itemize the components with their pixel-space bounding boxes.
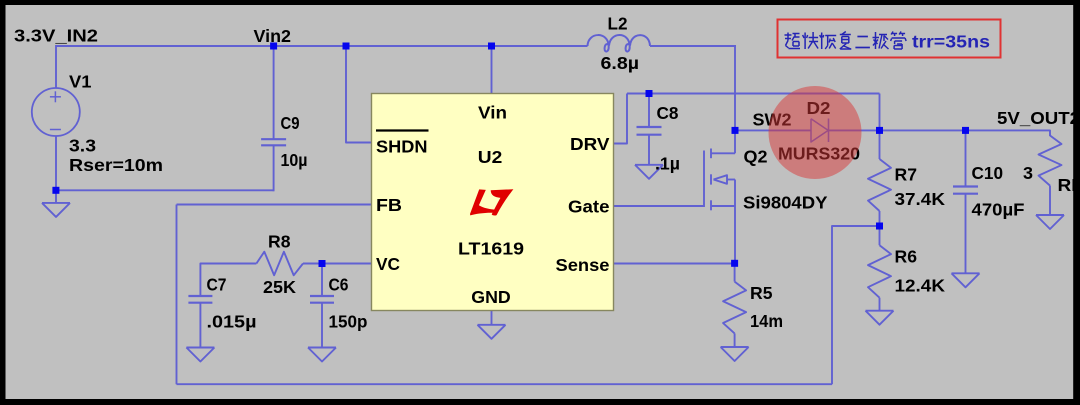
wire Vin pin drop (491, 46, 493, 94)
net label 5V_OUT2 (997, 108, 1080, 128)
svg-text:C9: C9 (281, 113, 300, 133)
value 150p (329, 312, 368, 332)
svg-text:LT1619: LT1619 (458, 239, 524, 259)
wire V1 bottom lead (55, 137, 57, 204)
mosfet Q2 (704, 130, 735, 263)
wire Sense pin (614, 263, 735, 265)
wire C10 bottom lead (965, 194, 967, 274)
diode D2 (811, 119, 829, 143)
annotation chinese text strokes (785, 32, 907, 50)
capacitor C7 (188, 296, 212, 303)
resistor R8 (256, 252, 303, 276)
label C10 (972, 163, 1004, 183)
value 3 (RL) (1023, 163, 1033, 183)
label R5 (750, 283, 773, 303)
svg-text:37.4K: 37.4K (895, 189, 946, 209)
label R8 (268, 232, 291, 252)
capacitor C10 (953, 187, 978, 194)
wire C9 bottom lead (273, 145, 275, 191)
wire Vin2 top rail left (56, 45, 588, 47)
capacitor C8 (637, 127, 662, 135)
value 14m (750, 311, 783, 331)
wire R6 top lead (879, 226, 881, 245)
ground C7 (186, 348, 214, 362)
ground R5 (721, 347, 749, 361)
svg-text:Sense: Sense (556, 255, 610, 275)
svg-text:C8: C8 (657, 103, 679, 123)
wire GND pin lead (491, 311, 493, 326)
capacitor C6 (310, 296, 334, 303)
capacitor C9 (261, 139, 286, 145)
svg-text:C10: C10 (972, 163, 1004, 183)
value 25K (263, 277, 296, 297)
label LT1619 (458, 239, 524, 259)
svg-text:Rser=10m: Rser=10m (69, 155, 163, 175)
svg-text:FB: FB (376, 195, 402, 215)
svg-text:R5: R5 (750, 283, 773, 303)
wire C6 bottom lead (321, 303, 323, 348)
wire rail down to output node (879, 94, 881, 131)
wire feedback tap (832, 226, 880, 384)
wire feedback bottom run (177, 383, 833, 385)
wire SW2 to D2 anode (735, 129, 812, 131)
resistor RL load (1039, 136, 1062, 186)
value 12.4K (895, 276, 946, 296)
value 6.8u (601, 53, 640, 73)
svg-text:3.3: 3.3 (69, 136, 96, 156)
svg-text:3.3V_IN2: 3.3V_IN2 (14, 26, 98, 46)
wire V1 top lead (55, 45, 57, 88)
wire C9 top lead (273, 46, 275, 139)
svg-text:trr=35ns: trr=35ns (912, 32, 990, 52)
ground R6 (866, 311, 894, 325)
pin label Vin (478, 103, 507, 123)
wire V1 to C9 bottom (55, 189, 274, 191)
wire output node to C10 (880, 129, 966, 131)
value .1u (655, 154, 680, 174)
pin label Sense (556, 255, 610, 275)
highlight circle around D2 (769, 86, 862, 179)
label D2 (807, 98, 831, 118)
label Q2 (744, 147, 768, 167)
wire RL bottom lead (1049, 186, 1051, 215)
svg-text:3: 3 (1023, 163, 1033, 183)
net label SW2 (753, 110, 792, 130)
wire C6 top lead (321, 264, 323, 297)
junction sense node (731, 260, 738, 267)
label C7 (207, 275, 227, 295)
label R6 (895, 247, 918, 267)
wire C10 top lead (965, 130, 967, 186)
ground C10 (952, 273, 980, 287)
junction VC node (319, 260, 326, 267)
value 10u (281, 150, 308, 170)
wire R8 left lead to C7 (200, 264, 256, 297)
wire SHDN from rail (346, 46, 372, 143)
svg-text:25K: 25K (263, 277, 296, 297)
wire Gate pin (614, 205, 705, 207)
wire R7 bottom lead (879, 211, 881, 226)
inductor L2 (588, 35, 651, 51)
logo LT (red) (470, 189, 513, 215)
net label 3.3V_IN2 (14, 26, 98, 46)
svg-text:14m: 14m (750, 311, 783, 331)
svg-text:Vin2: Vin2 (254, 26, 292, 46)
wire DRV rail (627, 93, 880, 95)
junction C8 tap (646, 90, 653, 97)
junction C9 tap (270, 43, 277, 50)
annotation text trr=35ns (912, 32, 990, 52)
label U2 (478, 147, 503, 167)
wire D2 cathode to node (829, 129, 880, 131)
svg-text:Gate: Gate (568, 197, 610, 217)
svg-text:470µF: 470µF (972, 200, 1025, 220)
svg-text:5V_OUT2: 5V_OUT2 (997, 108, 1080, 128)
ground C6 (308, 348, 336, 362)
svg-text:6.8µ: 6.8µ (601, 53, 640, 73)
wire R8 right lead (303, 263, 322, 265)
pin label VC (376, 254, 400, 274)
svg-text:DRV: DRV (570, 134, 610, 154)
svg-text:L2: L2 (608, 14, 628, 34)
svg-text:V1: V1 (69, 72, 92, 92)
op-amp U2 LT1619 body (372, 94, 614, 311)
svg-text:12.4K: 12.4K (895, 276, 946, 296)
wire R5 bottom lead (734, 333, 736, 347)
resistor R5 (723, 282, 746, 334)
value Rser=10m (69, 155, 163, 175)
junction feedback tap (876, 223, 883, 230)
value Si9804DY (743, 193, 828, 213)
svg-text:.1µ: .1µ (655, 154, 680, 174)
value .015u (207, 312, 257, 332)
svg-text:150p: 150p (329, 312, 368, 332)
wire R5 top lead (734, 264, 736, 282)
svg-text:SHDN: SHDN (376, 137, 428, 157)
svg-text:R8: R8 (268, 232, 291, 252)
junction C10 tap (962, 127, 969, 134)
wire R7 top lead (879, 130, 881, 159)
pin label FB (376, 195, 402, 215)
junction V1 gnd node (52, 187, 59, 194)
value MURS320 (778, 144, 860, 164)
junction SW2 node (732, 127, 739, 134)
label V1 (69, 72, 92, 92)
resistor R7 (868, 159, 891, 211)
svg-text:R6: R6 (895, 247, 918, 267)
pin label GND (471, 287, 511, 307)
svg-text:R7: R7 (895, 165, 918, 185)
svg-text:Vin: Vin (478, 103, 507, 123)
wire L2 corner down to SW2 (734, 45, 736, 130)
ground C8 (635, 165, 663, 179)
pin label DRV (570, 134, 610, 154)
label R7 (895, 165, 918, 185)
annotation box (red) (778, 20, 1001, 58)
svg-text:U2: U2 (478, 147, 503, 167)
ground RL (1036, 215, 1064, 229)
value 37.4K (895, 189, 946, 209)
junction SHDN tap (343, 43, 350, 50)
ground U2 GND (478, 325, 506, 339)
net label Vin2 (254, 26, 292, 46)
wire VC pin (322, 263, 372, 265)
label C9 (281, 113, 300, 133)
wire C10 to RL corner (966, 130, 1051, 136)
svg-text:Q2: Q2 (744, 147, 768, 167)
wire feedback left riser (176, 205, 178, 385)
value 470uF (972, 200, 1025, 220)
wire FB pin (177, 204, 372, 206)
wire C8 top lead (648, 94, 650, 128)
svg-text:GND: GND (471, 287, 511, 307)
ground V1 (42, 203, 70, 217)
wire DRV to rail (614, 94, 628, 144)
svg-text:10µ: 10µ (281, 150, 308, 170)
wire top rail L2 to corner (650, 45, 736, 47)
label L2 (608, 14, 628, 34)
svg-text:.015µ: .015µ (207, 312, 257, 332)
label C6 (329, 275, 349, 295)
pin label Gate (568, 197, 610, 217)
label C8 (657, 103, 679, 123)
wire C8 bottom lead (648, 135, 650, 165)
svg-text:C6: C6 (329, 275, 349, 295)
junction Vin tap (488, 43, 495, 50)
label RL2 (1058, 175, 1080, 195)
value 3.3 (69, 136, 96, 156)
resistor R6 (868, 245, 891, 298)
svg-text:Si9804DY: Si9804DY (743, 193, 828, 213)
svg-text:C7: C7 (207, 275, 227, 295)
pin label SHDN (376, 131, 429, 157)
wire R6 bottom lead (879, 298, 881, 311)
wire C7 bottom lead (199, 303, 201, 348)
svg-text:VC: VC (376, 254, 400, 274)
voltage source V1 (32, 88, 80, 136)
junction output node (876, 127, 883, 134)
